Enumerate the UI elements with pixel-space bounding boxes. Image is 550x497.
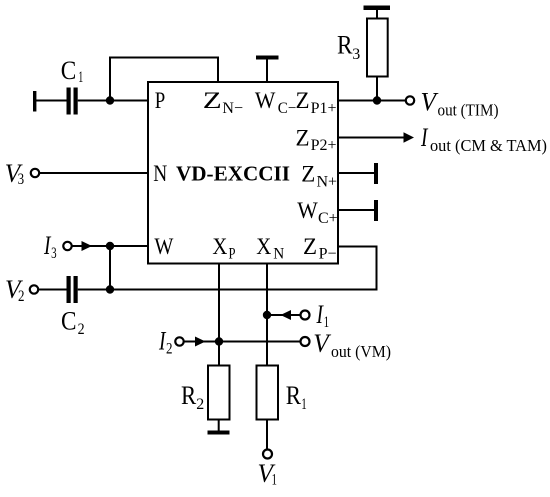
terminal V1 (263, 450, 272, 459)
resistor R1 (257, 366, 279, 420)
node: ZP1+ / R3 junction (373, 96, 381, 104)
wire: C1 to P pin (78, 100, 148, 102)
node: P / C1 / feedback junction (106, 96, 114, 104)
label V3 (5, 159, 24, 188)
svg-text:out (VM): out (VM) (331, 342, 391, 361)
wire: common rail to ZP- (110, 289, 378, 291)
pin label ZN+ (301, 162, 337, 191)
svg-text:W: W (297, 198, 318, 223)
node: XN / I1 junction (263, 311, 271, 319)
capacitor C1 (67, 88, 78, 115)
svg-text:Z: Z (301, 162, 315, 187)
wire: I2 to XP junction (184, 341, 219, 343)
IC U1 VD-EXCCII body (148, 82, 338, 264)
capacitor C2 (67, 276, 78, 303)
svg-text:R: R (337, 30, 353, 59)
pin label ZN- (top) (203, 88, 243, 117)
label Vout (TIM) (421, 87, 499, 119)
wire: WC- stub up (266, 58, 268, 82)
svg-text:C: C (61, 307, 77, 336)
terminal bar ZN+ (374, 163, 378, 184)
svg-text:P2+: P2+ (311, 137, 337, 154)
svg-text:P−: P− (319, 246, 337, 263)
wire: ZN+ stub (338, 172, 374, 174)
label I1 (316, 300, 329, 331)
R2 value label (181, 381, 204, 413)
terminal bar (C1 input) (33, 91, 36, 112)
svg-text:3: 3 (352, 46, 360, 63)
terminal bar R3 top (364, 6, 391, 11)
wire: W junction down to rail (109, 246, 111, 290)
svg-text:N−: N− (222, 100, 243, 117)
svg-text:Z: Z (203, 88, 222, 113)
wire: I3 to W junction (72, 245, 148, 247)
svg-text:2: 2 (166, 340, 173, 357)
label Iout (CM & TAM) (420, 123, 547, 155)
wire: feedback P node to ZN- top pin (110, 58, 218, 101)
svg-text:N: N (153, 161, 167, 186)
wire: C2 to rail junction (78, 289, 110, 291)
svg-text:W: W (154, 234, 173, 259)
svg-text:X: X (212, 234, 227, 259)
svg-text:1: 1 (78, 69, 83, 86)
svg-text:N+: N+ (317, 173, 338, 190)
label V2 (5, 275, 25, 305)
label I3 (43, 231, 56, 262)
svg-text:I: I (420, 123, 428, 152)
wire: V2 to C2 (39, 289, 67, 291)
svg-text:1: 1 (301, 396, 307, 413)
pin label ZP1+ (296, 88, 337, 117)
svg-text:3: 3 (18, 171, 25, 188)
svg-text:3: 3 (51, 245, 57, 262)
svg-text:2: 2 (78, 321, 85, 338)
svg-text:P: P (229, 246, 236, 263)
svg-text:C−: C− (278, 100, 297, 117)
C2 value label (61, 307, 85, 338)
svg-text:P: P (155, 88, 166, 113)
R3 value label (337, 30, 360, 63)
arrowhead I1 (pointing left) (281, 310, 292, 320)
resistor R3 (367, 19, 388, 77)
svg-text:out (CM & TAM): out (CM & TAM) (430, 136, 547, 155)
pin label ZP2+ (296, 125, 337, 154)
wire: R2 to ground bar (218, 420, 220, 432)
node: W / I3 junction (106, 242, 114, 250)
svg-text:VD-EXCCII: VD-EXCCII (176, 162, 290, 186)
wire: VM line (219, 341, 301, 343)
wire: ZP- loop (right then down) (338, 247, 377, 290)
label V1 (258, 459, 278, 489)
pin label XP (212, 234, 235, 263)
svg-text:P1+: P1+ (311, 100, 337, 117)
node: XP / I2 / VM junction (215, 337, 223, 345)
wire: XN column (266, 264, 268, 366)
terminal bar WC+ (374, 200, 378, 221)
svg-text:Z: Z (296, 125, 310, 150)
C1 value label (61, 56, 84, 86)
svg-text:1: 1 (272, 472, 278, 489)
svg-text:R: R (181, 381, 197, 410)
terminal V2 (30, 285, 38, 293)
pin label ZP- (bottom row) (303, 234, 337, 263)
label I2 (158, 327, 172, 358)
wire: V3 to N pin (40, 172, 149, 174)
wire: R3 bottom to ZP1+ node (376, 77, 378, 101)
terminal V3 (31, 169, 39, 177)
svg-text:out (TIM): out (TIM) (438, 101, 499, 120)
arrowhead I2 (195, 337, 206, 347)
pin label XN (256, 234, 284, 263)
wire: I1 junction to terminal (267, 314, 301, 316)
wire: WC+ stub (338, 209, 374, 211)
svg-text:2: 2 (18, 288, 25, 305)
node: C2 / W / rail junction (106, 285, 114, 293)
arrowhead I3 (82, 241, 93, 251)
R1 value label (286, 381, 307, 413)
terminal Vout(VM) (301, 337, 310, 346)
svg-text:X: X (256, 234, 271, 259)
ground bar (R2) (208, 431, 230, 435)
arrowhead Iout (404, 132, 415, 142)
label Vout (VM) (313, 329, 391, 361)
wire: R3 top stub (376, 9, 378, 19)
svg-text:C+: C+ (318, 210, 338, 227)
wire: R1 to V1 terminal (266, 420, 268, 450)
svg-text:Z: Z (296, 88, 310, 113)
wire: XP column (218, 264, 220, 366)
svg-text:C: C (61, 56, 77, 85)
terminal bar WC- (256, 56, 279, 60)
wire: ZP1+ pin to Vout(TIM) terminal (338, 100, 406, 102)
terminal I1 (301, 311, 310, 320)
resistor R2 (208, 366, 230, 420)
pin label WC+ (297, 198, 337, 227)
terminal Vout(TIM) (406, 96, 414, 104)
svg-text:Z: Z (303, 234, 317, 259)
svg-text:2: 2 (196, 396, 204, 413)
wire: input bar to C1 (36, 100, 67, 102)
pin label WC- (top) (255, 88, 296, 117)
svg-text:R: R (286, 381, 302, 410)
terminal I2 (175, 337, 183, 345)
wire: ZP2+ to Iout arrow (338, 137, 404, 139)
svg-text:W: W (255, 88, 276, 113)
terminal I3 (63, 242, 71, 250)
svg-text:N: N (273, 246, 284, 263)
